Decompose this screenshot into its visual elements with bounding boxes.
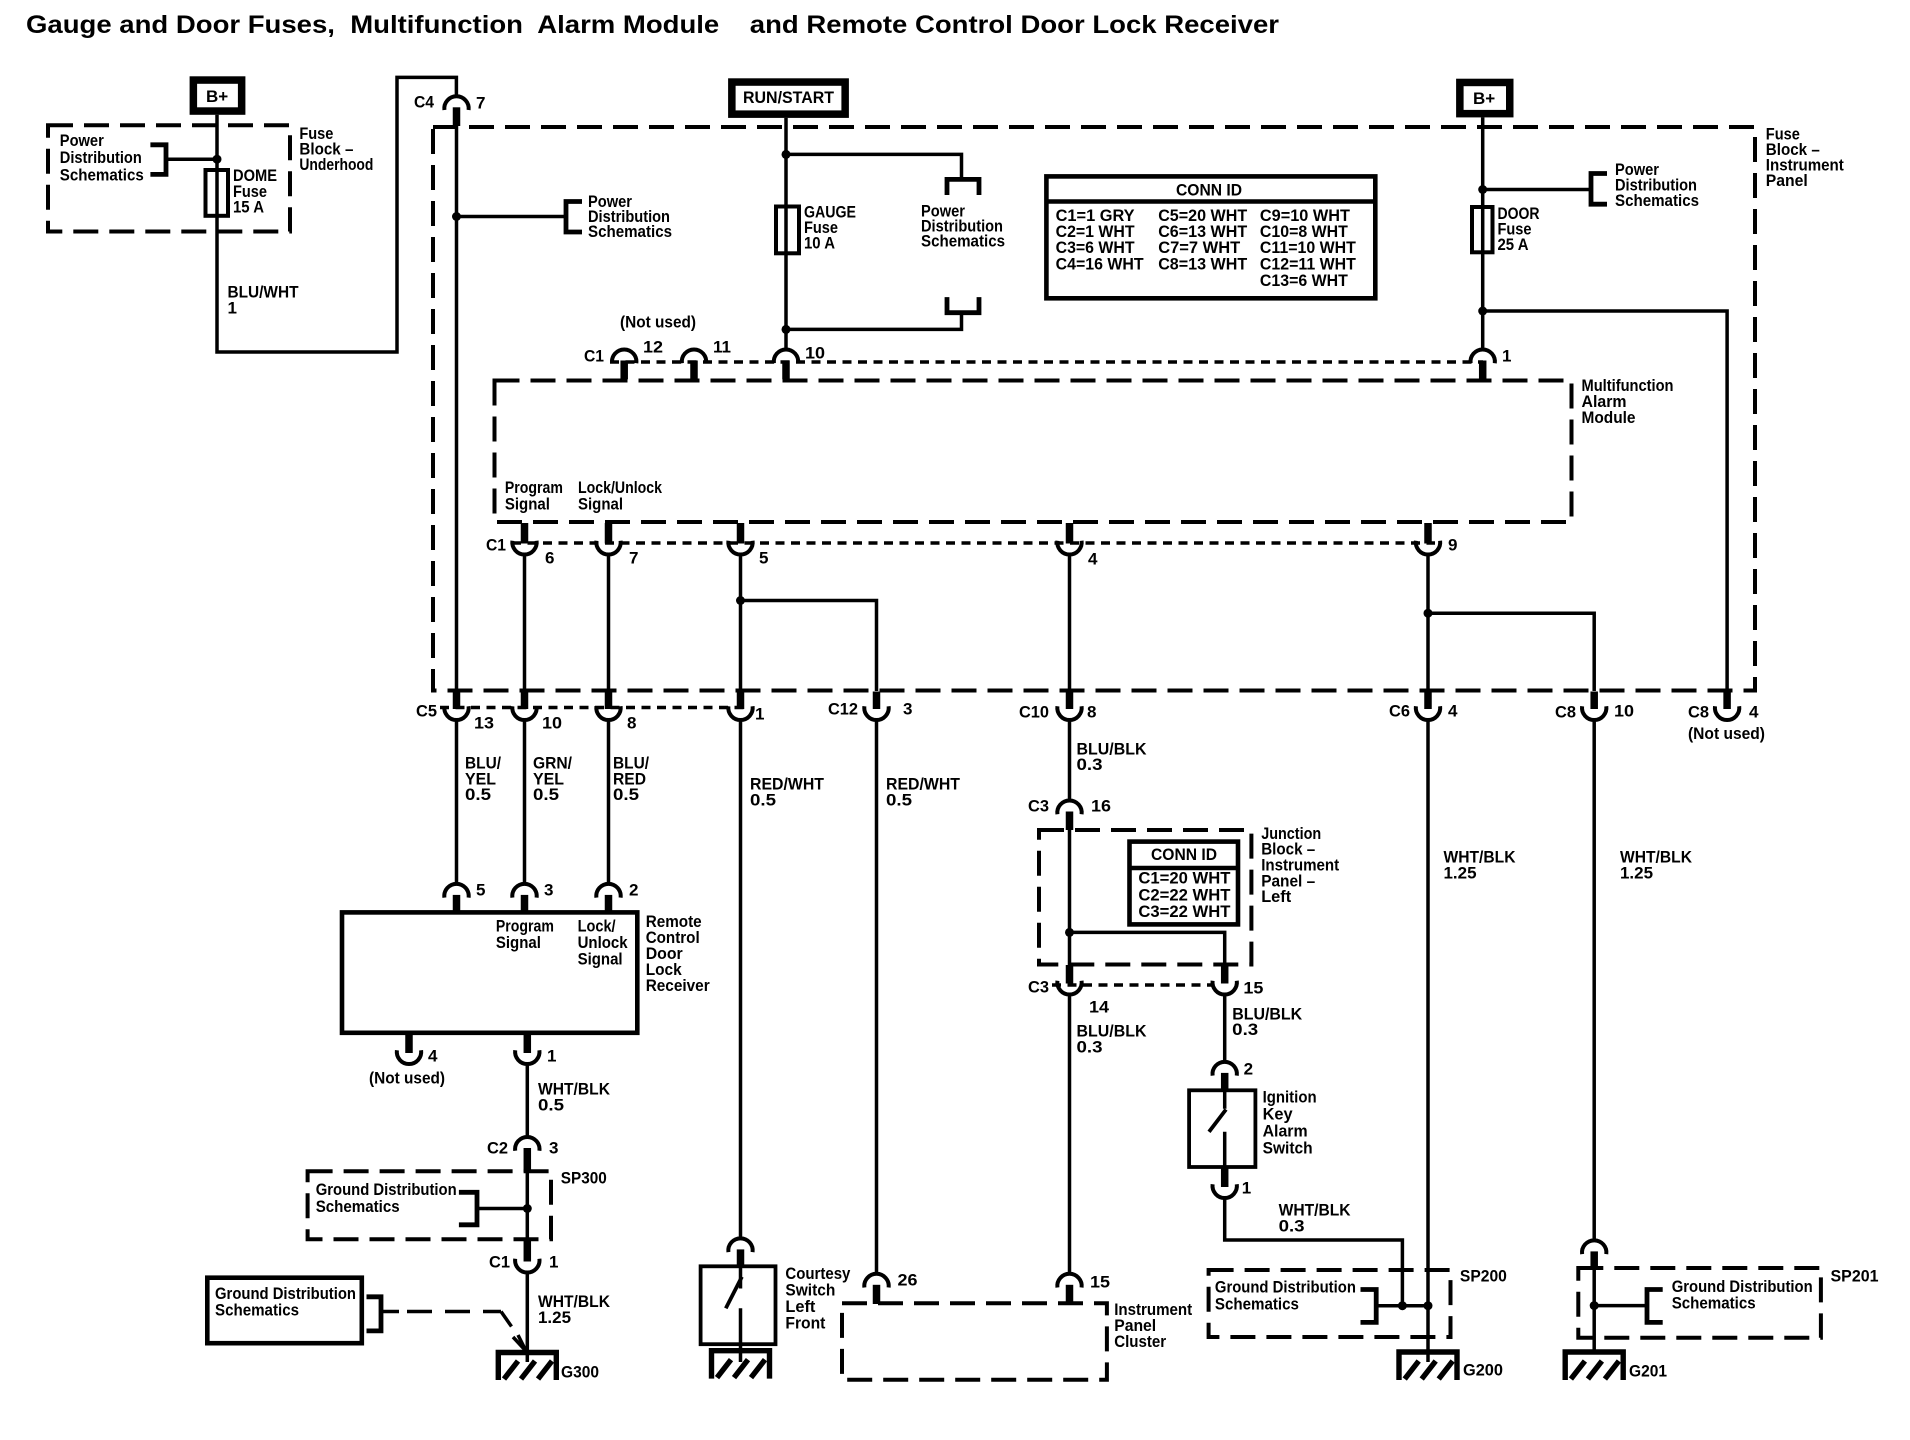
svg-text:25 A: 25 A [1498, 235, 1529, 254]
wire branch to C8-10 [1428, 613, 1594, 691]
svg-text:11: 11 [713, 338, 731, 357]
wire bracket to G200 wire [1376, 1304, 1428, 1308]
svg-text:0.5: 0.5 [538, 1095, 564, 1114]
svg-text:1: 1 [1502, 347, 1511, 366]
wire SP201 splice to bracket [1594, 1304, 1647, 1308]
svg-text:Schematics: Schematics [316, 1197, 400, 1216]
BLU/WHT 1 wire label [228, 283, 300, 318]
bracket (SP200) [1361, 1290, 1377, 1323]
svg-text:Module: Module [1582, 408, 1636, 427]
wire C3-15 down to ignition switch [1223, 994, 1227, 1063]
svg-text:15: 15 [1090, 1273, 1110, 1292]
wire C4-7 down to C5-13 inside fuse block [455, 126, 459, 691]
Ground Distribution Schematics label (G300 box) [215, 1284, 356, 1320]
receiver pin 4 stub (exit) [405, 1033, 413, 1053]
svg-text:C4=16 WHT: C4=16 WHT [1056, 255, 1145, 274]
svg-text:15 A: 15 A [233, 198, 264, 217]
svg-text:12: 12 [643, 338, 663, 357]
receiver pin 2 stub [605, 895, 613, 913]
SP200 splice dashed box [1209, 1270, 1451, 1337]
ignition pin 2 stub [1221, 1073, 1229, 1091]
Ground Distribution Schematics label (SP200) [1215, 1278, 1356, 1314]
svg-text:Signal: Signal [578, 950, 623, 969]
Fuse Block - Instrument Panel label [1766, 125, 1844, 191]
wire door top branch to bracket [1483, 188, 1591, 192]
svg-text:1.25: 1.25 [1444, 863, 1477, 882]
junction dot door top [1478, 185, 1487, 194]
svg-text:Schematics: Schematics [1215, 1294, 1299, 1313]
DOOR fuse symbol [1472, 207, 1493, 252]
connector C2 pin 3 arc [515, 1137, 539, 1151]
Lock/Unlock Signal label (module) [578, 478, 662, 514]
connector C3 pin 16 arc [1057, 800, 1081, 814]
bracket (SP300) [459, 1192, 477, 1225]
module pin 9 arc [1416, 541, 1440, 555]
Fuse Block - Instrument Panel dashed box [433, 127, 1755, 691]
svg-text:0.3: 0.3 [1232, 1020, 1258, 1039]
CONN ID table (fuse block) [1046, 176, 1375, 298]
C6 pin 4 arc [1416, 706, 1440, 720]
C1 connector dotted line (module top) [610, 360, 1483, 364]
svg-text:C5: C5 [416, 702, 437, 721]
wire through SP300 [526, 1171, 530, 1240]
svg-text:15: 15 [1243, 979, 1263, 998]
svg-text:Left: Left [1261, 887, 1291, 906]
bracket for Power Distribution Schematics (underhood) [150, 145, 166, 175]
Program Signal label (receiver) [496, 917, 554, 953]
bracket Power Distribution Schematics (door area) [1591, 174, 1607, 205]
wire C5-1 to courtesy switch [739, 719, 743, 1240]
svg-text:Panel: Panel [1766, 171, 1808, 190]
SP201 splice dashed box [1578, 1268, 1821, 1338]
C5 pin 10 stub [521, 692, 529, 710]
wire door bottom branch to C8-4 exit [1483, 311, 1727, 691]
wire C6-4 to G200 [1426, 719, 1430, 1362]
module pin 6 arc [512, 541, 536, 555]
wire pin 9 to C6-4 [1426, 553, 1430, 691]
module pin 9 stub [1424, 523, 1432, 544]
ground (courtesy switch) [712, 1351, 770, 1379]
C5 connector dotted line [440, 706, 748, 710]
connector C4 pin 7 stub [453, 107, 461, 126]
C3 pin 15 arc [1213, 981, 1237, 995]
svg-text:4: 4 [1448, 702, 1458, 721]
C5 pin 1 arc [728, 706, 752, 720]
CONN ID table (junction block) [1130, 842, 1239, 925]
svg-text:9: 9 [1448, 536, 1457, 555]
connector C1 pin 10 arc [774, 349, 798, 363]
ignition pin 2 arc [1213, 1062, 1237, 1076]
arrow to G300 wire [513, 1335, 526, 1351]
svg-text:CONN ID: CONN ID [1176, 181, 1242, 200]
Lock/Unlock Signal label (receiver) [578, 917, 628, 969]
connector C4 pin 7 arc [444, 96, 468, 110]
svg-text:G201: G201 [1629, 1362, 1667, 1381]
svg-text:Schematics: Schematics [588, 222, 672, 241]
C3 pin 14 stub [1066, 965, 1074, 984]
Power Distribution Schematics label (underhood) [60, 131, 144, 185]
svg-text:7: 7 [476, 94, 485, 113]
svg-text:10: 10 [542, 714, 562, 733]
ignition pin 1 arc [1213, 1184, 1237, 1198]
C5 pin 8 stub [605, 692, 613, 710]
connector C1 pin 12 arc [612, 349, 636, 363]
svg-text:RUN/START: RUN/START [743, 88, 835, 107]
svg-text:Schematics: Schematics [60, 165, 144, 184]
svg-text:1.25: 1.25 [1620, 863, 1653, 882]
C5 pin 10 arc [512, 706, 536, 720]
receiver pin 2 arc [596, 884, 620, 898]
BLU/RED 0.5 wire label [613, 754, 649, 805]
bracket (SP201) [1647, 1290, 1663, 1323]
junction dot SP300 [523, 1204, 532, 1213]
DOOR Fuse 25 A label [1498, 204, 1540, 254]
wire B+ right down through DOOR fuse to C1-1 [1481, 117, 1485, 350]
svg-text:C1: C1 [489, 1253, 510, 1272]
receiver pin 3 arc [512, 884, 536, 898]
Power Distribution Schematics label (door area) [1615, 160, 1699, 210]
RUN/START terminal [728, 78, 849, 118]
wire C3-16 through junction block [1068, 830, 1072, 965]
svg-text:Distribution: Distribution [60, 148, 142, 167]
Instrument Panel Cluster label [1114, 1300, 1192, 1351]
wire ignition pin 1 to SP200 [1225, 1197, 1403, 1306]
ground G300 [498, 1353, 556, 1381]
C5 pin 13 stub [453, 692, 461, 710]
BLU/BLK 0.3 wire label (C10-8) [1077, 739, 1148, 774]
wire gauge top branch to bracket [786, 154, 962, 177]
BLU/YEL 0.5 wire label [465, 754, 501, 805]
bracket bottom (gauge) [947, 297, 979, 313]
wire B+ left down through DOME fuse, BLU/WHT run to riser [217, 77, 456, 352]
RED/WHT 0.5 wire label (cluster 26) [886, 775, 961, 810]
module pin 4 stub [1066, 523, 1074, 544]
svg-text:C3=22 WHT: C3=22 WHT [1138, 902, 1231, 921]
module pin 5 arc [728, 541, 752, 555]
C8 pin 10 stub [1590, 692, 1598, 710]
bracket Power Distribution Schematics (C4 area) [566, 202, 582, 233]
svg-text:Gauge and Door Fuses, Multifu: Gauge and Door Fuses, Multifunction Alar… [26, 11, 1279, 39]
svg-text:3: 3 [549, 1139, 558, 1158]
Program Signal label (module) [505, 478, 563, 514]
svg-text:C8: C8 [1555, 703, 1576, 722]
Ground Distribution Schematics label (SP300) [316, 1180, 457, 1216]
svg-text:26: 26 [898, 1271, 918, 1290]
svg-text:C12: C12 [828, 700, 858, 719]
wire gauge bottom branch back to fuse wire [786, 315, 962, 330]
wire branch to C3-15 [1070, 932, 1225, 965]
cluster pin 15 stub [1066, 1285, 1074, 1304]
svg-text:4: 4 [428, 1047, 438, 1066]
svg-text:3: 3 [903, 700, 912, 719]
svg-text:1: 1 [547, 1047, 556, 1066]
svg-text:Schematics: Schematics [1615, 191, 1699, 210]
junction dot C4 wire [452, 212, 461, 221]
wire from bracket to DOME fuse wire [166, 157, 217, 161]
svg-text:1: 1 [755, 705, 764, 724]
wire pin 6 to C5-10 [523, 553, 527, 691]
svg-text:Power: Power [60, 131, 104, 150]
wire bracket to SP300 splice [477, 1207, 527, 1211]
svg-text:3: 3 [544, 881, 553, 900]
pin 12 stub [620, 361, 628, 380]
svg-text:7: 7 [629, 549, 638, 568]
junction dot C8-10 branch [1424, 609, 1433, 618]
SP201 entry arc [1582, 1240, 1606, 1254]
C10 pin 8 stub [1066, 692, 1074, 710]
Fuse Block - Underhood dashed box [48, 125, 290, 231]
Multifunction Alarm Module label [1582, 376, 1674, 427]
Power Distribution Schematics label (C4 area) [588, 192, 672, 241]
cluster pin 26 stub [873, 1285, 881, 1304]
svg-text:13: 13 [474, 714, 494, 733]
courtesy switch pin stub [737, 1249, 745, 1267]
C3 pin 15 stub [1221, 965, 1229, 984]
C8 pin 4 arc [1715, 706, 1739, 720]
Instrument Panel Cluster dashed box [842, 1303, 1107, 1379]
module pin 7 arc [596, 541, 620, 555]
DOME Fuse 15 A label [233, 166, 277, 217]
Multifunction Alarm Module dashed box [495, 381, 1572, 523]
C2 pin 3 stub [524, 1148, 532, 1172]
svg-text:C1: C1 [486, 536, 506, 555]
Power Distribution Schematics label (gauge area) [921, 201, 1005, 250]
svg-text:8: 8 [627, 714, 636, 733]
svg-text:0.3: 0.3 [1279, 1216, 1305, 1235]
svg-text:C6: C6 [1389, 702, 1410, 721]
wire pin 7 to C5-8 [607, 553, 611, 691]
svg-text:BLU/WHT: BLU/WHT [228, 283, 300, 302]
pin 10 stub [782, 361, 790, 380]
C5 pin 1 stub [737, 692, 745, 710]
receiver pin 3 stub [521, 895, 529, 913]
ignition pin 1 stub (exit) [1221, 1167, 1229, 1187]
svg-text:SP201: SP201 [1831, 1267, 1879, 1286]
wire C5-10 to receiver pin 3 [523, 719, 527, 885]
ignition switch contacts [1223, 1090, 1227, 1167]
svg-text:Signal: Signal [496, 933, 541, 952]
SP201 entry stub [1590, 1251, 1598, 1269]
Ground Distribution Schematics label (SP201) [1672, 1277, 1813, 1313]
Junction Block dashed box [1039, 830, 1251, 965]
wire C10-8 to C3-16 [1068, 719, 1072, 801]
connector C1 pin 1 arc (module top right) [1471, 349, 1495, 363]
C8 pin 10 arc [1582, 706, 1606, 720]
WHT/BLK 1.25 wire label (C8-10) [1620, 848, 1693, 883]
svg-text:Signal: Signal [578, 494, 623, 513]
svg-text:C2: C2 [487, 1139, 508, 1158]
svg-text:0.5: 0.5 [533, 785, 559, 804]
svg-text:0.5: 0.5 [465, 785, 491, 804]
WHT/BLK 1.25 wire label (C6-4) [1444, 848, 1517, 883]
dashed leader to G300 [381, 1310, 399, 1314]
Junction Block - Instrument Panel - Left label [1261, 824, 1339, 906]
svg-text:6: 6 [545, 549, 554, 568]
svg-text:10: 10 [1614, 702, 1634, 721]
junction dot SP200 (ignition wire) [1398, 1301, 1407, 1310]
svg-text:Signal: Signal [505, 494, 550, 513]
wire RUN/START down through GAUGE fuse to C1-10 [784, 118, 788, 350]
junction dot door bottom [1478, 307, 1487, 316]
connector C1 pin 11 arc [682, 349, 706, 363]
svg-text:2: 2 [629, 881, 638, 900]
junction dot (junction block) [1065, 928, 1074, 937]
C5 pin 8 arc [596, 706, 620, 720]
svg-text:C10: C10 [1019, 703, 1049, 722]
ignition switch blade [1209, 1110, 1226, 1132]
svg-text:0.5: 0.5 [750, 790, 776, 809]
svg-text:0.5: 0.5 [886, 790, 912, 809]
junction dot gauge bottom [782, 325, 791, 334]
C3 connector dotted line (bottom) [1052, 983, 1213, 987]
WHT/BLK 0.5 wire label [538, 1080, 611, 1115]
courtesy switch blade [726, 1277, 742, 1309]
svg-text:Underhood: Underhood [299, 155, 373, 174]
GRN/YEL 0.5 wire label [533, 754, 572, 805]
Fuse Block - Underhood label [299, 124, 373, 174]
wire C12-3 to cluster pin 26 [875, 719, 879, 1275]
wire through SP201 to G201 [1592, 1268, 1596, 1352]
junction dot on DOME wire [213, 155, 222, 164]
bracket (G300 box) [367, 1297, 382, 1331]
module pin 6 stub [521, 523, 529, 544]
svg-text:(Not used): (Not used) [1688, 724, 1765, 743]
wire branch to C12-3 [741, 601, 877, 692]
SP300 exit stub [524, 1240, 532, 1262]
svg-text:Receiver: Receiver [646, 976, 710, 995]
receiver pin 5 arc [444, 884, 468, 898]
bracket top (gauge Power Distribution Schematics) [947, 179, 979, 195]
GAUGE Fuse 10 A label [804, 203, 856, 253]
SP300 splice dashed box [308, 1171, 551, 1239]
wire pin 5 to C5-1 [739, 553, 743, 691]
svg-text:C1: C1 [584, 347, 604, 366]
Ground Distribution Schematics box (solid, G300) [207, 1278, 361, 1344]
wire C8-10 to SP201 [1592, 719, 1596, 1241]
svg-text:0.3: 0.3 [1077, 755, 1103, 774]
Ignition Key Alarm Switch box [1189, 1090, 1255, 1167]
svg-text:2: 2 [1244, 1060, 1253, 1079]
RED/WHT 0.5 wire label (courtesy) [750, 775, 825, 810]
svg-text:C8=13 WHT: C8=13 WHT [1158, 255, 1248, 274]
svg-text:Schematics: Schematics [1672, 1294, 1756, 1313]
Courtesy Switch Left Front label [785, 1264, 850, 1333]
receiver pin 5 stub [453, 895, 461, 913]
C12 pin 3 stub [873, 692, 881, 710]
wire C1-1 down to G300 [526, 1272, 530, 1363]
svg-text:C3: C3 [1028, 978, 1049, 997]
module pin 5 stub [737, 523, 745, 544]
svg-text:(Not used): (Not used) [369, 1069, 445, 1088]
svg-text:C13=6 WHT: C13=6 WHT [1260, 271, 1349, 290]
svg-text:SP200: SP200 [1460, 1267, 1507, 1286]
pin 11 stub [690, 361, 698, 380]
svg-text:B+: B+ [206, 87, 228, 106]
svg-text:Schematics: Schematics [215, 1301, 299, 1320]
cluster pin 15 arc [1057, 1274, 1081, 1288]
svg-text:Switch: Switch [1263, 1139, 1313, 1158]
svg-text:16: 16 [1091, 797, 1111, 816]
BLU/BLK 0.3 wire label (pin 14) [1077, 1022, 1148, 1057]
svg-text:1: 1 [1242, 1179, 1251, 1198]
ground G201 [1565, 1352, 1623, 1380]
module pin 7 stub [605, 523, 613, 544]
svg-text:G200: G200 [1463, 1361, 1503, 1380]
ground G200 [1399, 1352, 1457, 1380]
wire junction to bracket (C4 area) [457, 215, 567, 219]
B+ terminal (left) [190, 76, 246, 115]
svg-text:G300: G300 [561, 1363, 599, 1382]
BLU/BLK 0.3 wire label (pin 15) [1232, 1004, 1303, 1039]
junction dot SP201 [1590, 1301, 1599, 1310]
C3 pin 14 arc [1057, 981, 1081, 995]
courtesy switch contacts [739, 1266, 743, 1362]
svg-text:0.5: 0.5 [613, 785, 639, 804]
Courtesy Switch box [701, 1266, 776, 1344]
cluster pin 26 arc [864, 1274, 888, 1288]
svg-text:5: 5 [476, 881, 485, 900]
connector C1 pin 1 arc (below SP300) [515, 1259, 539, 1273]
receiver pin 1 stub (exit) [524, 1033, 532, 1053]
svg-text:C3: C3 [1028, 797, 1049, 816]
GAUGE fuse symbol [776, 207, 799, 254]
svg-text:Front: Front [785, 1314, 825, 1333]
wire receiver pin 1 down to C2-3 [526, 1063, 530, 1138]
Remote Control Door Lock Receiver box [342, 912, 637, 1032]
junction dot gauge top [782, 150, 791, 159]
svg-text:(Not used): (Not used) [620, 313, 696, 332]
svg-text:Cluster: Cluster [1114, 1332, 1166, 1351]
svg-text:0.3: 0.3 [1077, 1037, 1103, 1056]
svg-text:10 A: 10 A [804, 234, 835, 253]
module pin 4 arc [1057, 541, 1081, 555]
C5 pin 13 arc [444, 706, 468, 720]
svg-text:CONN ID: CONN ID [1151, 845, 1217, 864]
DOME fuse symbol [206, 170, 229, 216]
svg-text:C8: C8 [1688, 703, 1709, 722]
C8 pin 4 stub [1723, 692, 1731, 710]
Ignition Key Alarm Switch label [1263, 1088, 1317, 1158]
C6 pin 4 stub [1424, 692, 1432, 710]
courtesy switch connector arc [728, 1238, 752, 1252]
wire C5-8 to receiver pin 2 [607, 719, 611, 885]
wire pin 4 to C10-8 [1068, 553, 1072, 691]
svg-text:C4: C4 [414, 93, 434, 112]
receiver pin 4 arc [397, 1050, 421, 1064]
C10 pin 8 arc [1057, 706, 1081, 720]
svg-text:SP300: SP300 [561, 1169, 607, 1188]
svg-text:5: 5 [759, 549, 768, 568]
C12 pin 3 arc [864, 706, 888, 720]
svg-text:8: 8 [1087, 703, 1096, 722]
Remote Control Door Lock Receiver label [646, 912, 710, 995]
pin 1 stub (module top right) [1479, 361, 1487, 380]
junction dot SP200 (G200 wire) [1424, 1301, 1433, 1310]
receiver pin 1 arc [515, 1050, 539, 1064]
svg-text:14: 14 [1089, 998, 1110, 1017]
svg-text:10: 10 [805, 344, 825, 363]
svg-text:1.25: 1.25 [538, 1308, 571, 1327]
svg-text:B+: B+ [1473, 89, 1495, 108]
wire C3-14 down to cluster pin 15 [1068, 994, 1072, 1275]
svg-text:Schematics: Schematics [921, 231, 1005, 250]
svg-text:4: 4 [1088, 550, 1098, 569]
B+ terminal (right) [1456, 79, 1513, 118]
junction dot courtesy branch [736, 596, 745, 605]
svg-text:4: 4 [1749, 703, 1759, 722]
C3 pin 16 stub [1066, 812, 1074, 831]
svg-text:1: 1 [549, 1253, 558, 1272]
